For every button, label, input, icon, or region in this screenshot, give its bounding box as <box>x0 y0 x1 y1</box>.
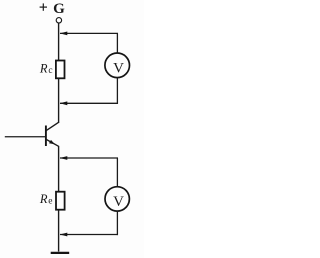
label + G <box>40 1 66 17</box>
svg-text:V: V <box>113 60 124 76</box>
wire: emitter to resistor Re <box>58 146 60 193</box>
wire: resistor Rc to transistor collector <box>58 79 60 124</box>
wire: terminal to resistor Rc <box>58 24 60 62</box>
wire: upper probe top with arrow <box>60 32 118 36</box>
transistor Q1 <box>46 122 59 146</box>
emitter diagonal with arrow <box>46 139 58 146</box>
collector diagonal <box>46 122 59 130</box>
wire: upper loop right side down to voltmeter <box>116 33 118 53</box>
wire: voltmeter V1 to lower corner <box>116 78 118 104</box>
resistor Re <box>56 192 65 210</box>
voltmeter V2 <box>105 187 129 211</box>
svg-text:R: R <box>39 61 48 75</box>
svg-text:G: G <box>53 1 65 17</box>
wire: base lead <box>5 136 46 138</box>
ground <box>51 252 69 254</box>
wire: lower probe top with arrow <box>60 156 118 160</box>
supply terminal G <box>56 18 61 23</box>
wire: resistor Re to ground <box>58 210 60 252</box>
svg-text:c: c <box>48 66 52 76</box>
wire: lower probe bottom with arrow <box>60 233 118 237</box>
voltmeter V1 <box>105 53 130 78</box>
wire: voltmeter V2 to lower corner <box>116 211 118 235</box>
base bar <box>45 126 47 147</box>
wire: lower loop right side down to voltmeter <box>116 158 118 187</box>
svg-text:e: e <box>48 197 52 207</box>
wire: upper probe bottom with arrow <box>60 101 118 105</box>
resistor Rc <box>56 61 65 79</box>
svg-text:V: V <box>113 194 124 210</box>
svg-text:R: R <box>39 192 48 206</box>
